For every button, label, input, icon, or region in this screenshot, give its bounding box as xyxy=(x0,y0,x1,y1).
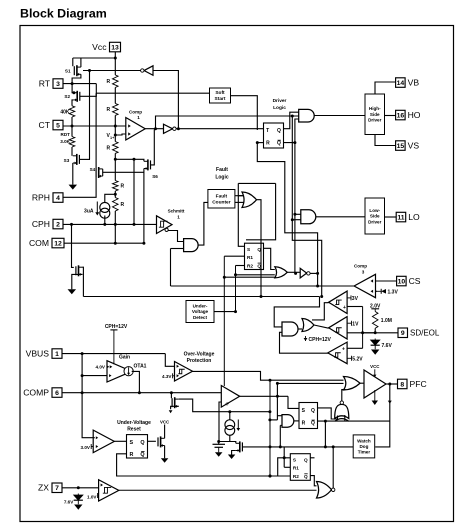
svg-text:5.2V: 5.2V xyxy=(352,357,363,363)
wire M-timing source xyxy=(232,451,236,455)
node 1.0M bottom xyxy=(374,331,377,334)
wire A-WD in2 xyxy=(280,424,282,426)
svg-text:VBUS: VBUS xyxy=(26,349,50,359)
label 3.0V xyxy=(81,444,94,450)
svg-text:S: S xyxy=(293,458,296,463)
resistor 40K xyxy=(60,106,74,117)
wire HO xyxy=(385,115,396,117)
node RT junction xyxy=(71,82,74,85)
svg-text:40K: 40K xyxy=(60,109,70,115)
svg-text:Start: Start xyxy=(215,96,226,102)
svg-text:3.0V: 3.0V xyxy=(81,445,91,450)
pin VBUS 1 xyxy=(26,349,62,359)
svg-text:RT: RT xyxy=(39,79,51,89)
svg-text:VS: VS xyxy=(408,141,420,151)
wire SchA out loop xyxy=(312,303,329,320)
svg-text:R2: R2 xyxy=(247,264,253,269)
label 3V ref xyxy=(347,295,358,302)
wire RT line xyxy=(63,83,96,85)
svg-text:Dog: Dog xyxy=(359,444,368,449)
wire fault loop vert2 xyxy=(246,183,276,239)
wire inverter out down xyxy=(153,71,178,129)
label 7.6V xyxy=(382,343,393,349)
wire A-WD in2 drop xyxy=(279,425,281,447)
wire S4 stub tie xyxy=(102,169,104,176)
wire 3uA bottom xyxy=(104,216,106,225)
wire S1 out line xyxy=(83,70,141,72)
schmitt comparator SchC xyxy=(328,342,347,364)
pin Vcc 13 xyxy=(92,42,120,52)
svg-text:1V: 1V xyxy=(352,321,359,327)
svg-text:Driver: Driver xyxy=(273,98,287,104)
svg-text:1: 1 xyxy=(177,215,180,220)
svg-text:3uA: 3uA xyxy=(84,208,94,214)
wire RDT to S3 xyxy=(71,147,73,156)
wire H2 bus xyxy=(83,296,319,298)
pin COM 12 xyxy=(29,238,64,248)
block Under-Voltage Detect xyxy=(186,301,214,323)
node x270 y420 xyxy=(268,418,271,421)
wire bus x224 xyxy=(223,256,225,386)
wire COMP line xyxy=(62,392,221,394)
transistor S6 xyxy=(144,159,158,179)
wire CS bottom xyxy=(219,435,230,441)
resistor RDT 3.0K xyxy=(69,137,75,148)
wire M-UVR source down xyxy=(164,446,166,459)
svg-text:VCC: VCC xyxy=(370,364,380,369)
wire M-comp drain xyxy=(179,399,270,412)
wire S3 source down xyxy=(72,163,74,185)
and gate A-HS xyxy=(299,109,314,122)
node CPH c xyxy=(133,223,136,226)
svg-text:11: 11 xyxy=(397,215,404,222)
svg-text:Reset: Reset xyxy=(127,427,141,433)
wire SchC out loop xyxy=(280,332,329,353)
svg-text:Q: Q xyxy=(311,408,315,414)
wire A-WD out to FF-R R xyxy=(294,420,299,422)
resistor R divider 2 xyxy=(106,103,118,115)
svg-text:Q: Q xyxy=(304,474,308,479)
svg-text:CPH: CPH xyxy=(32,219,50,229)
wire schmitt out xyxy=(168,231,183,242)
wire bus vC xyxy=(294,143,296,274)
current source 3uA xyxy=(84,202,110,219)
wire TQbar to A-HS xyxy=(284,119,299,143)
wire UVD out xyxy=(214,311,236,313)
label CPH=12V top xyxy=(105,324,128,365)
wire M-CPH drain to H2 xyxy=(82,267,85,296)
label Gain xyxy=(119,355,130,361)
current source timing xyxy=(225,420,240,436)
svg-text:VCC: VCC xyxy=(160,419,170,424)
svg-text:S: S xyxy=(302,408,306,414)
node gate line x270 xyxy=(269,445,272,448)
wire divider b xyxy=(114,88,116,104)
wire CT to RDT xyxy=(71,126,73,137)
svg-text:Counter: Counter xyxy=(212,199,231,205)
and gate A-fault xyxy=(184,239,199,252)
svg-text:6: 6 xyxy=(55,390,59,397)
wire divider a xyxy=(114,58,116,75)
or gate OR-PFC xyxy=(344,377,361,391)
wire FF-B S in xyxy=(278,458,291,476)
pin RT 3 xyxy=(39,79,63,89)
wire S2 gate up xyxy=(80,84,97,97)
svg-text:16: 16 xyxy=(397,113,405,120)
pin RPH 4 xyxy=(32,193,63,203)
ground below cap xyxy=(215,452,223,457)
svg-text:7.6V: 7.6V xyxy=(382,343,393,349)
svg-text:S: S xyxy=(247,247,250,252)
wire A-fault out xyxy=(198,202,208,245)
label 4.0V xyxy=(96,365,106,370)
wire inv-mid out xyxy=(310,272,318,274)
transistor M-timing xyxy=(236,441,243,452)
svg-text:S3: S3 xyxy=(64,158,70,163)
svg-text:10: 10 xyxy=(398,279,406,286)
transistor M-UVR xyxy=(158,436,165,447)
node vC at A-LS xyxy=(293,213,296,216)
svg-text:R1: R1 xyxy=(247,255,253,260)
wire ZX out bus xyxy=(119,489,317,491)
wire V1+ to comp1 xyxy=(115,134,126,135)
wire CPH line xyxy=(63,223,157,225)
wire UVR comp out xyxy=(114,440,126,442)
node between R4 R5 xyxy=(114,193,117,196)
nor gate NOR-B xyxy=(317,482,335,499)
or gate OR-mid xyxy=(275,267,288,278)
pin LO 11 xyxy=(396,212,420,222)
wire soft start out xyxy=(231,96,258,130)
pin COMP 6 xyxy=(23,388,62,398)
svg-text:RDT: RDT xyxy=(61,132,71,137)
label Under-Voltage Reset xyxy=(117,420,151,433)
and gate A-LS xyxy=(301,210,316,224)
svg-text:Low-: Low- xyxy=(369,208,380,213)
wire CS top xyxy=(229,412,231,420)
wire divider c xyxy=(114,115,116,141)
flip-flop T driver logic xyxy=(264,123,284,148)
wire M-UVR drain up xyxy=(164,425,166,439)
wire FF-R Q to XNOR xyxy=(318,408,338,419)
wire comp1 branch up xyxy=(156,116,299,129)
wire A-HS out xyxy=(314,115,365,117)
wire R branch down xyxy=(257,143,317,286)
flip-flop UVR S/R xyxy=(127,435,148,458)
svg-text:Under-Voltage: Under-Voltage xyxy=(117,420,151,426)
label 5.2V ref xyxy=(347,356,363,363)
label Fault Logic xyxy=(215,167,229,180)
pin HO 16 xyxy=(396,110,421,120)
svg-text:Q: Q xyxy=(257,264,261,269)
node x270 y476 xyxy=(269,475,272,478)
wire gate bus down to S4 xyxy=(95,93,97,168)
wire fault S loop xyxy=(238,195,243,197)
svg-text:Driver: Driver xyxy=(368,118,381,123)
node VBUS on COMP line xyxy=(81,391,84,394)
svg-text:CT: CT xyxy=(39,120,51,130)
wire tap to S6 drain xyxy=(115,159,144,161)
wire S1 drain up xyxy=(80,58,82,67)
comparator Comp3 xyxy=(354,264,376,298)
svg-text:R: R xyxy=(106,107,110,113)
node CS on line xyxy=(228,410,231,413)
wire OR-fault out xyxy=(257,200,262,297)
node x224 tap xyxy=(223,276,226,279)
svg-text:Q: Q xyxy=(277,128,281,134)
wire LO xyxy=(385,216,397,218)
schmitt comparator ZX xyxy=(99,480,119,501)
svg-text:1+: 1+ xyxy=(110,136,115,140)
wire FF-B R1 feed xyxy=(283,447,285,467)
svg-text:Watch: Watch xyxy=(357,438,371,443)
node UVR bus x270 xyxy=(269,475,272,478)
svg-text:S4: S4 xyxy=(90,167,96,172)
wire A-fault in2 drop xyxy=(170,249,172,287)
transistor S4 xyxy=(90,167,103,178)
label Driver Logic xyxy=(273,98,287,111)
wire FF-B R1 in xyxy=(284,466,290,468)
svg-text:+: + xyxy=(342,346,345,352)
svg-text:ZX: ZX xyxy=(38,483,49,493)
svg-text:CS: CS xyxy=(409,276,421,286)
node A-WD in2 on gate line xyxy=(279,445,282,448)
wire OTA out xyxy=(132,371,140,392)
wire S4 to S6 column xyxy=(103,171,144,173)
pin PFC 8 xyxy=(398,379,427,389)
svg-text:SD/EOL: SD/EOL xyxy=(410,329,440,338)
wire M-CPH source xyxy=(72,274,83,289)
schmitt comparator SchA xyxy=(329,291,348,313)
wire Vcc pin down xyxy=(114,52,116,58)
svg-text:7.6V: 7.6V xyxy=(64,499,74,504)
node CPH b xyxy=(103,223,106,226)
wire OR-mid in2 xyxy=(236,274,275,276)
wire FF-R Qbar line xyxy=(318,420,390,422)
wire TQ to A-HS xyxy=(284,112,299,129)
block High-Side Driver xyxy=(365,94,385,135)
svg-text:LO: LO xyxy=(408,212,420,222)
wire bus x270 to x277 link xyxy=(270,419,278,421)
ground below PFC driver xyxy=(372,390,378,405)
node TQbar split xyxy=(293,141,296,144)
svg-text:R1: R1 xyxy=(293,466,299,471)
svg-text:R: R xyxy=(129,452,133,458)
driver PFC xyxy=(364,364,386,398)
node VBUS OTA tap xyxy=(81,374,84,377)
node CPH divider xyxy=(114,223,117,226)
svg-text:5: 5 xyxy=(56,123,60,130)
wire rail to S1 gate xyxy=(72,58,74,66)
block Fault Counter xyxy=(208,190,235,209)
node gate line x325 xyxy=(324,445,327,448)
node OVP on bus xyxy=(269,379,272,382)
pin SD/EOL 9 xyxy=(398,328,440,338)
svg-text:Fault: Fault xyxy=(216,193,228,199)
node OTA on COMP xyxy=(138,391,141,394)
wire bus x277 xyxy=(276,383,278,420)
svg-text:R: R xyxy=(121,202,125,208)
wire VBUS line xyxy=(62,353,165,355)
node vB at A-LS xyxy=(291,218,294,221)
svg-text:4.0V: 4.0V xyxy=(96,365,106,370)
node gate line x333 xyxy=(332,445,335,448)
wire 1.3V to comp3 xyxy=(376,290,378,292)
pin VS 15 xyxy=(396,141,420,151)
wire 3uA top xyxy=(105,194,116,202)
svg-text:4.3V: 4.3V xyxy=(162,374,172,379)
node CPH a xyxy=(70,223,73,226)
wire OR-PFC in2 line xyxy=(277,382,343,384)
node vB on H2 xyxy=(320,295,323,298)
label VCC small xyxy=(160,419,170,424)
comparator Comp1 xyxy=(126,109,145,140)
wire FF1 Q out xyxy=(264,248,275,269)
wire M-timing drain xyxy=(230,442,236,444)
wire UVR Q to gate xyxy=(148,440,156,442)
svg-text:R: R xyxy=(266,141,270,147)
zener diode 7.6V ZX xyxy=(74,494,83,510)
svg-text:9: 9 xyxy=(401,330,405,337)
svg-text:1.0M: 1.0M xyxy=(381,318,392,324)
transistor S3 xyxy=(64,154,80,165)
wire Qbar tap down xyxy=(324,421,326,447)
svg-text:Logic: Logic xyxy=(215,174,229,180)
wire CPH to gate xyxy=(72,224,74,267)
svg-text:15: 15 xyxy=(397,143,405,150)
wire OR-SD out xyxy=(314,325,329,328)
node S1 out xyxy=(88,69,91,72)
svg-text:CPH=12V: CPH=12V xyxy=(309,337,332,343)
svg-text:+: + xyxy=(343,305,346,311)
wire comp1 to S6 gate xyxy=(154,128,155,131)
svg-text:Driver: Driver xyxy=(368,219,381,224)
wire M-comp source xyxy=(171,406,179,409)
wire CT line xyxy=(63,125,126,127)
svg-text:7: 7 xyxy=(55,485,59,492)
svg-text:1.3V: 1.3V xyxy=(388,289,399,295)
wire FF1 R1 in xyxy=(224,255,244,257)
wire COM line xyxy=(64,242,144,244)
node VBUS a xyxy=(81,352,84,355)
flip-flop FF-R S/R xyxy=(299,403,318,429)
svg-text:Schmitt: Schmitt xyxy=(168,209,185,214)
transistor S1 xyxy=(65,65,81,76)
svg-text:Side: Side xyxy=(370,112,380,117)
node comp gate tap xyxy=(170,391,173,394)
resistor R divider 5 xyxy=(113,198,125,212)
svg-text:Q: Q xyxy=(257,247,261,252)
schmitt comparator SchB xyxy=(329,317,348,339)
svg-text:Soft: Soft xyxy=(215,90,225,96)
wire A-LS out xyxy=(316,216,365,218)
wire comp1 out xyxy=(145,128,163,130)
wire divider e xyxy=(114,191,116,198)
label Over-Voltage Protection xyxy=(184,351,215,364)
wire VB xyxy=(375,82,395,94)
svg-text:Voltage: Voltage xyxy=(192,309,209,314)
label 2.0V supply xyxy=(370,304,381,312)
wire M-comp gate xyxy=(170,393,172,399)
svg-text:R: R xyxy=(106,145,110,151)
svg-text:S6: S6 xyxy=(152,174,158,179)
inverter U-mid xyxy=(300,268,310,278)
wire SchA plus in xyxy=(347,306,363,308)
wire bus x235 xyxy=(235,266,237,312)
svg-text:3: 3 xyxy=(56,81,60,88)
or gate OR-fault xyxy=(242,192,257,208)
node S2 drain xyxy=(72,91,75,94)
svg-text:OTA1: OTA1 xyxy=(134,364,147,370)
svg-text:14: 14 xyxy=(397,80,405,87)
wire R input xyxy=(257,142,263,144)
label V1+ xyxy=(106,133,115,140)
schmitt trigger Schmitt1 xyxy=(157,209,185,234)
wire UVR R loop + bus xyxy=(117,454,291,476)
svg-text:Fault: Fault xyxy=(216,167,228,173)
wire buf1 out to T xyxy=(176,128,263,130)
wire 40K to CT xyxy=(71,117,73,126)
node PFC out tap xyxy=(388,383,391,386)
wire cap stub xyxy=(218,442,220,445)
op-amp OTA1 xyxy=(107,361,147,382)
wire A-WD in1 xyxy=(277,415,282,417)
wire fault loop vert1 xyxy=(238,183,244,246)
xnor gate XNOR xyxy=(335,401,349,421)
and gate A-SD xyxy=(282,322,298,336)
block Watch Dog Timer xyxy=(353,435,375,458)
svg-text:3: 3 xyxy=(362,269,365,274)
svg-text:1: 1 xyxy=(55,351,59,358)
svg-text:High-: High- xyxy=(369,106,381,111)
wire XNOR in2 xyxy=(344,415,346,421)
resistor R divider 4 xyxy=(113,181,125,192)
svg-text:+: + xyxy=(225,401,229,408)
wire vB stub to A-LS xyxy=(292,219,301,221)
node x235 tap xyxy=(234,273,237,276)
wire WDT loop xyxy=(375,384,390,447)
wire S2 drain xyxy=(72,84,73,93)
node R input xyxy=(256,141,259,144)
wire bus vB xyxy=(292,116,321,297)
wire bus x270 xyxy=(269,380,271,476)
wire x224 line xyxy=(224,276,274,278)
wire S1 source down xyxy=(72,74,81,83)
buffer U-buf1 xyxy=(164,124,177,133)
svg-text:R2: R2 xyxy=(293,474,299,479)
wire VBUS to OVP xyxy=(165,354,174,367)
node S6 source COM xyxy=(142,242,145,245)
pin ZX 7 xyxy=(38,483,62,493)
node sd-eol net xyxy=(361,331,364,334)
wire S3 gate right xyxy=(79,158,90,160)
svg-text:Timer: Timer xyxy=(358,450,371,455)
node V1+ tap xyxy=(114,134,117,137)
svg-text:Comp: Comp xyxy=(354,264,367,269)
transistor M-comp xyxy=(172,397,179,408)
svg-text:R: R xyxy=(121,184,125,190)
inverter U-top xyxy=(141,66,153,76)
svg-text:Q: Q xyxy=(140,452,144,458)
diode 1.3V ref xyxy=(377,289,399,296)
wire soft-start feed xyxy=(96,92,209,94)
wire CS to comp3 xyxy=(376,280,397,282)
svg-text:R: R xyxy=(302,421,306,427)
label 1.0V xyxy=(87,493,99,499)
pin CS 10 xyxy=(397,276,421,286)
svg-text:Q: Q xyxy=(277,141,281,147)
wire error to FF-R S xyxy=(288,396,299,408)
